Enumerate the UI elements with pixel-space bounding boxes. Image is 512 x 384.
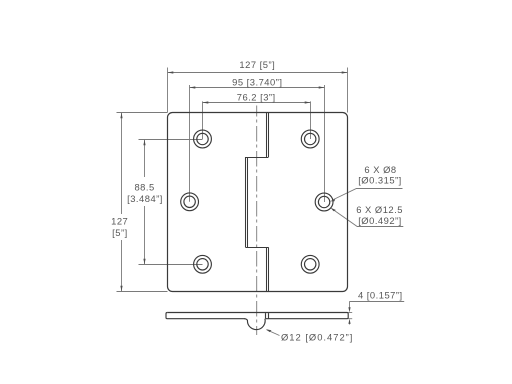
svg-text:95 [3.740”]: 95 [3.740”] xyxy=(232,76,282,87)
svg-text:[Ø0.492”]: [Ø0.492”] xyxy=(358,215,402,226)
svg-text:6 X Ø12.5: 6 X Ø12.5 xyxy=(356,204,403,215)
svg-text:Ø12 [Ø0.472”]: Ø12 [Ø0.472”] xyxy=(281,331,353,342)
svg-text:76.2 [3”]: 76.2 [3”] xyxy=(237,92,276,103)
svg-text:[Ø0.315”]: [Ø0.315”] xyxy=(358,175,402,186)
svg-text:127 [5”]: 127 [5”] xyxy=(239,59,275,70)
svg-text:4 [0.157”]: 4 [0.157”] xyxy=(358,289,403,300)
svg-text:[5”]: [5”] xyxy=(112,227,128,238)
svg-text:[3.484”]: [3.484”] xyxy=(127,193,163,204)
svg-text:88.5: 88.5 xyxy=(134,182,154,193)
svg-text:127: 127 xyxy=(111,216,128,227)
svg-text:6 X Ø8: 6 X Ø8 xyxy=(364,164,396,175)
